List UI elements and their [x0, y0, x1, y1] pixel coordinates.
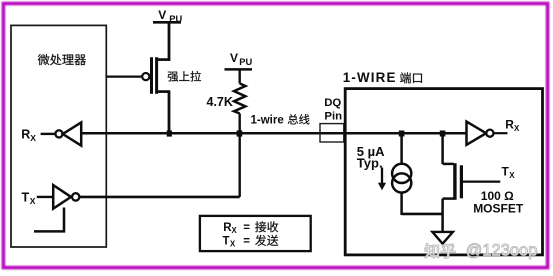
wire bus to MOSFET drain — [441, 133, 444, 164]
svg-text:T: T — [502, 165, 510, 179]
transistor MOSFET 100 ohm — [443, 163, 454, 166]
wire bus to current source — [400, 133, 403, 163]
label 发送 (transmit) — [255, 235, 278, 246]
svg-text:R: R — [21, 127, 30, 141]
inverter Rx (receive buffer) — [55, 130, 62, 137]
svg-text:=: = — [243, 222, 250, 234]
transistor strong pull-up PMOS (强上拉) — [142, 73, 149, 80]
node junction current source/bus — [399, 131, 405, 137]
wire Rx lead — [41, 133, 56, 135]
svg-text:X: X — [30, 196, 36, 206]
svg-text:X: X — [30, 133, 36, 143]
microprocessor block 微处理器 — [11, 25, 106, 247]
svg-text:1-WIRE: 1-WIRE — [343, 70, 397, 85]
wire ground rail — [402, 213, 443, 216]
svg-text:V: V — [158, 8, 166, 22]
label 微处理器 (microprocessor) — [38, 54, 86, 65]
legend box — [200, 216, 311, 251]
svg-text:X: X — [514, 124, 520, 133]
svg-text:T: T — [22, 190, 30, 204]
svg-text:X: X — [509, 171, 515, 180]
svg-text:@123oop: @123oop — [466, 241, 538, 259]
svg-text:PU: PU — [239, 57, 252, 67]
wire gate from microprocessor — [107, 75, 143, 77]
svg-text:X: X — [230, 240, 236, 249]
wire Tx enable stub — [34, 208, 64, 232]
svg-text:=: = — [243, 235, 250, 247]
label 强上拉 (strong pull-up) — [168, 71, 201, 82]
resistor 4.7K — [234, 84, 245, 114]
node junction resistor/bus/Tx — [237, 130, 243, 136]
label 端口 (port) — [400, 72, 422, 83]
wire VPU to resistor — [238, 69, 240, 83]
svg-text:R: R — [505, 118, 514, 132]
DQ pin box — [320, 124, 344, 142]
label 接收 (receive) — [255, 221, 278, 232]
svg-text:T: T — [223, 235, 230, 247]
arrow current direction — [381, 168, 383, 185]
node junction pull-up/bus — [167, 130, 172, 136]
label 总线 (bus) — [288, 114, 310, 124]
svg-text:4.7K: 4.7K — [207, 95, 233, 109]
svg-text:X: X — [232, 226, 238, 235]
wire pull-up drain to bus — [168, 92, 171, 134]
svg-text:Pin: Pin — [324, 110, 342, 122]
1-WIRE port box — [345, 89, 542, 255]
watermark 知乎 — [425, 244, 456, 259]
node junction MOSFET/bus — [440, 131, 446, 137]
wire Tx output to bus — [79, 196, 239, 199]
svg-text:1-wire: 1-wire — [251, 114, 284, 126]
svg-text:DQ: DQ — [324, 97, 341, 109]
inverter Tx (transmit driver) — [53, 185, 71, 209]
wire current source to ground rail — [400, 193, 403, 215]
current source 5uA (two circles) — [392, 164, 411, 183]
wire resistor to bus — [238, 114, 240, 134]
inverter Rx (right receive buffer) — [467, 122, 487, 145]
wire VPU to pull-up source — [168, 22, 171, 61]
wire right Rx lead — [494, 132, 508, 134]
wire 1-wire bus — [81, 132, 467, 135]
svg-text:MOSFET: MOSFET — [473, 201, 524, 215]
ground — [441, 214, 444, 232]
svg-text:Typ.: Typ. — [357, 155, 383, 170]
svg-text:V: V — [230, 51, 238, 65]
wire Tx lead — [37, 196, 53, 198]
